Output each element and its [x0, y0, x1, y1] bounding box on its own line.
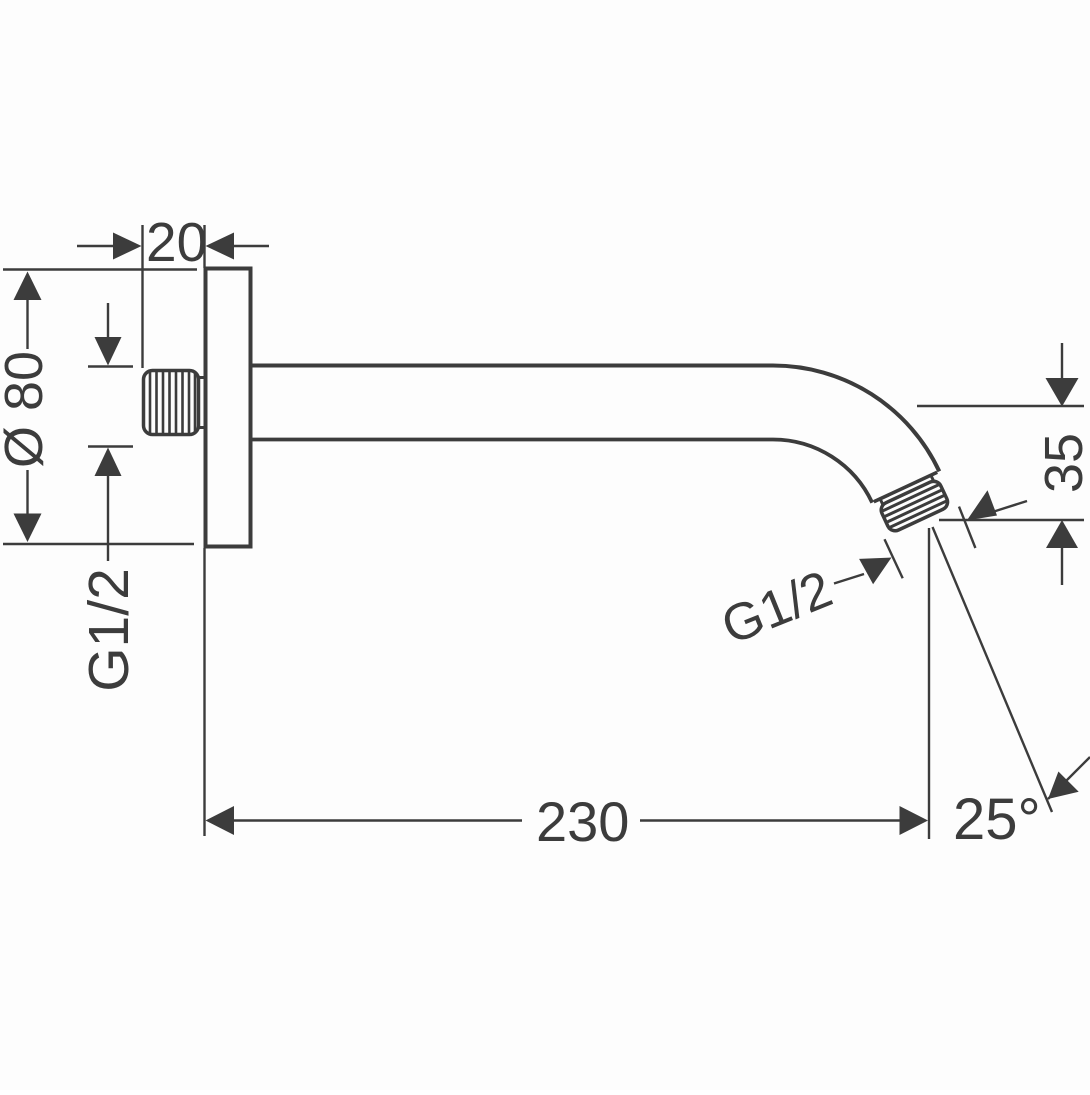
svg-text:Ø 80: Ø 80 [0, 351, 54, 468]
dim 35 right: ext lines, arrows [917, 343, 1084, 585]
dim 20: tails, ext lines, arrows [77, 225, 269, 368]
svg-text:20: 20 [146, 211, 207, 273]
svg-text:35: 35 [1034, 433, 1090, 493]
25 deg axis line and arrow [933, 527, 1053, 812]
dim 230: ext lines, dim line, arrows [205, 528, 930, 839]
wall thread G1/2 (hatched) [144, 371, 199, 435]
svg-text:G1/2: G1/2 [714, 560, 840, 656]
shower arm tube top line [253, 364, 774, 368]
svg-text:25°: 25° [953, 787, 1041, 852]
bend outer arc [773, 366, 939, 472]
dim G1/2 right: ticks, leader arrows [834, 501, 1027, 584]
shower arm tube bottom line [253, 438, 774, 442]
dim G1/2 left: ticks, arrows [88, 303, 133, 561]
wall plate [206, 269, 251, 547]
nozzle (rotated 25deg) [874, 472, 953, 534]
thread neck to plate [197, 378, 205, 428]
svg-text:230: 230 [536, 790, 629, 853]
bend inner arc [773, 440, 872, 503]
dim O80: ext lines, dim line, arrows [3, 270, 197, 545]
svg-text:G1/2: G1/2 [77, 568, 141, 692]
